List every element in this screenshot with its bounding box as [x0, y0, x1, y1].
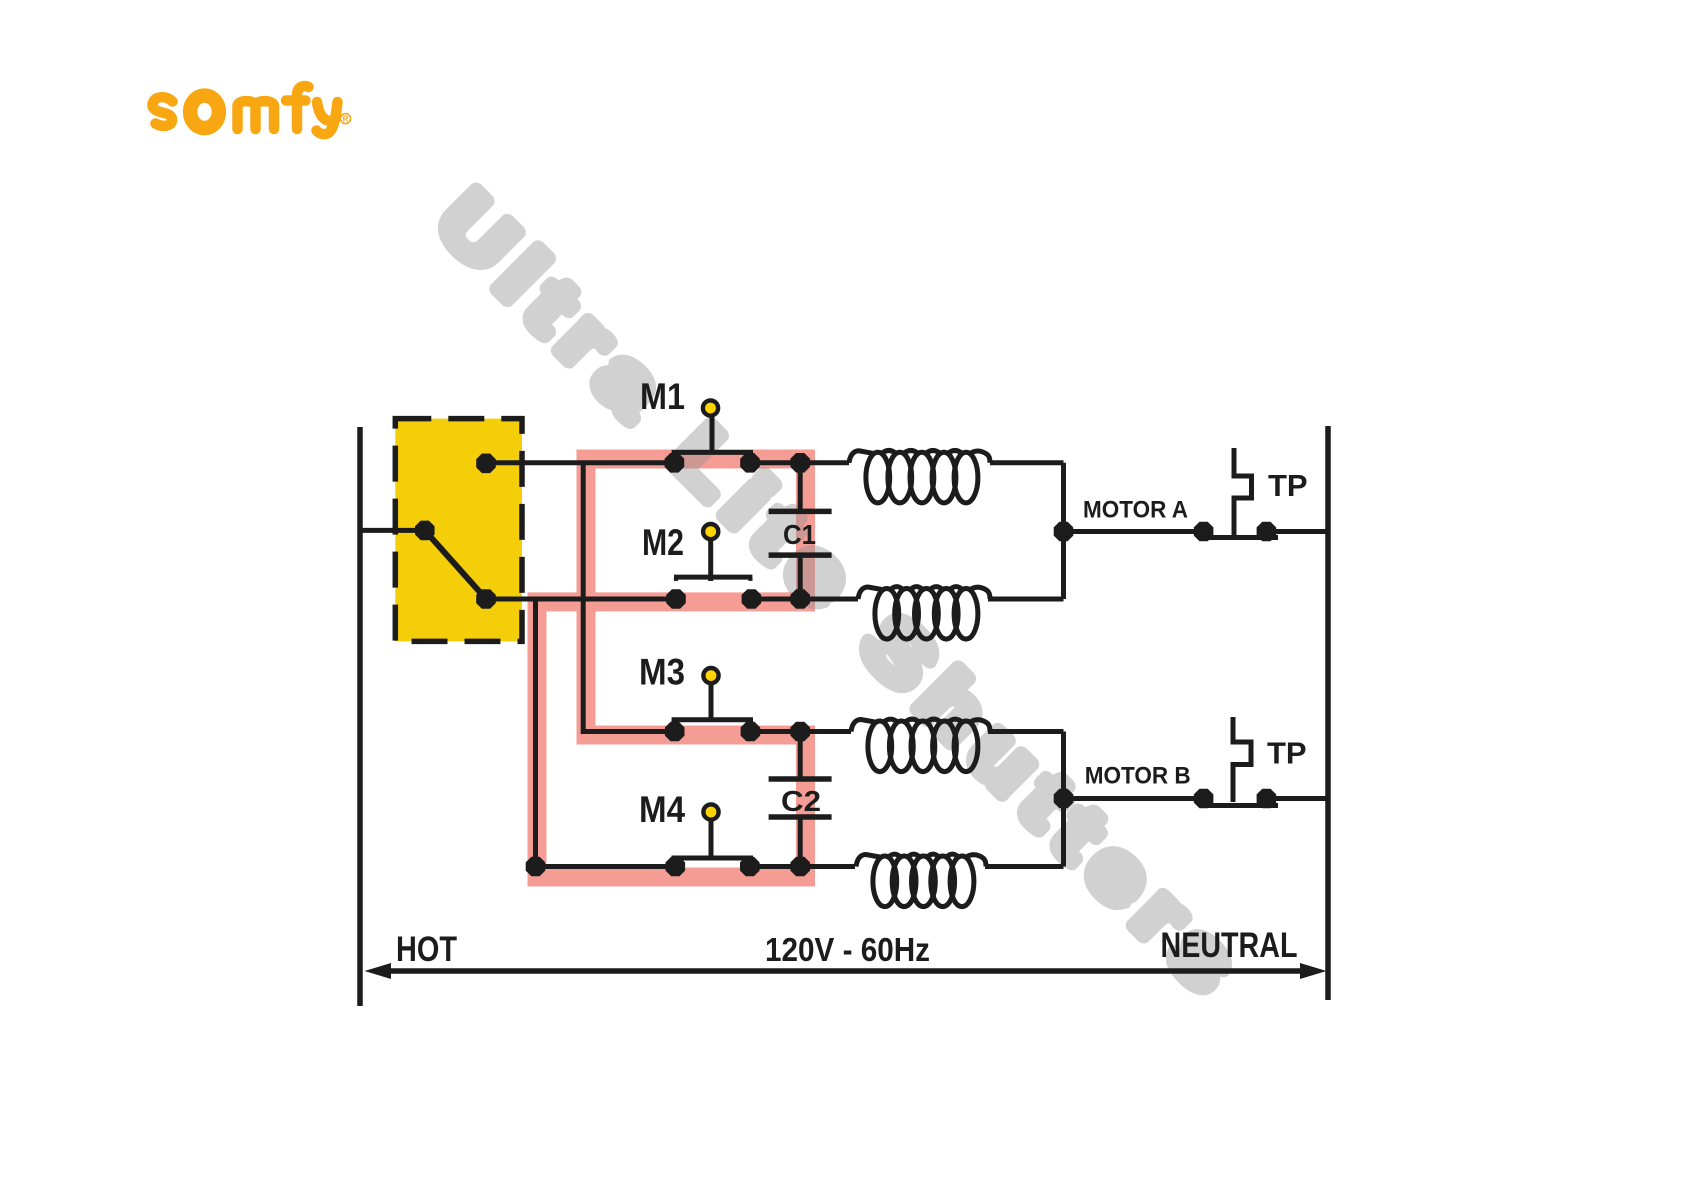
- svg-text:HOT: HOT: [396, 930, 457, 969]
- svg-text:M4: M4: [639, 789, 685, 830]
- svg-text:M1: M1: [640, 376, 685, 417]
- svg-text:C1: C1: [783, 519, 816, 550]
- svg-text:MOTOR A: MOTOR A: [1083, 496, 1188, 523]
- svg-text:M3: M3: [639, 652, 685, 693]
- svg-text:TP: TP: [1268, 468, 1308, 503]
- svg-text:M2: M2: [642, 522, 684, 563]
- svg-text:120V - 60Hz: 120V - 60Hz: [765, 931, 930, 968]
- svg-text:NEUTRAL: NEUTRAL: [1161, 926, 1298, 965]
- svg-text:MOTOR B: MOTOR B: [1085, 763, 1191, 790]
- svg-text:R: R: [343, 115, 349, 124]
- svg-text:TP: TP: [1267, 736, 1307, 771]
- svg-text:C2: C2: [781, 786, 821, 818]
